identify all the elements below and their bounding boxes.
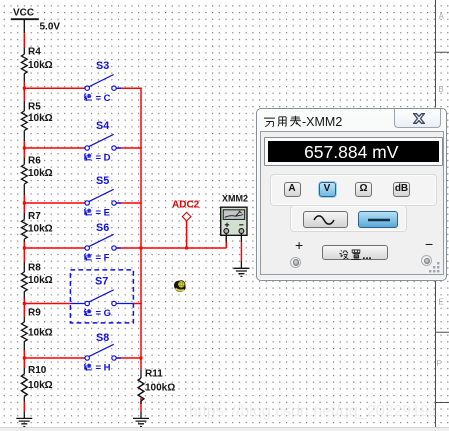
resistor R7: [21, 213, 27, 242]
button dB: [393, 182, 410, 197]
close button: [394, 109, 441, 128]
wire XMM2 - to ground: [240, 242, 242, 261]
svg-text:ADC2: ADC2: [172, 200, 200, 211]
switch S4: [84, 120, 121, 164]
svg-text:10kΩ: 10kΩ: [28, 60, 53, 71]
junction row4 left: [23, 247, 26, 250]
svg-text:R6: R6: [28, 156, 41, 167]
switch S8: [84, 332, 121, 374]
svg-text:10kΩ: 10kΩ: [28, 168, 53, 179]
wire row3 (node E): [24, 202, 142, 204]
wire bus right: [140, 88, 142, 358]
group box modes: [270, 174, 437, 206]
plus label: [295, 237, 303, 253]
junction row6 bus: [140, 357, 143, 360]
terminal +: [290, 257, 301, 268]
svg-text:S6: S6: [96, 222, 109, 234]
resistor R4: [21, 48, 27, 83]
button AC (sine): [303, 211, 348, 228]
ground (XMM2): [233, 261, 249, 276]
junction row2: [23, 147, 26, 150]
junction row1: [23, 87, 26, 90]
ground (left chain): [16, 411, 32, 426]
button V (selected): [319, 182, 336, 197]
resistor R11: [138, 370, 144, 404]
button A: [284, 182, 301, 197]
svg-text:= D: = D: [96, 153, 111, 164]
svg-text:R8: R8: [28, 263, 41, 274]
junction row5: [23, 302, 26, 305]
svg-text:10kΩ: 10kΩ: [28, 275, 53, 286]
minus label: [425, 236, 433, 252]
switch S3: [84, 60, 121, 104]
wire bus to R11: [140, 358, 142, 411]
svg-text:10kΩ: 10kΩ: [28, 224, 53, 235]
svg-text:S3: S3: [96, 60, 109, 72]
resistor R8: [21, 262, 27, 299]
svg-text:S7: S7: [95, 275, 108, 287]
selection box around S7: [70, 270, 133, 323]
svg-text:E: E: [439, 298, 444, 307]
node ADC2: [172, 200, 200, 249]
wire row4 (node F, extends to XMM2): [24, 236, 226, 248]
svg-text:R11: R11: [145, 369, 163, 380]
svg-text:S4: S4: [96, 120, 109, 132]
svg-text:XMM2: XMM2: [222, 194, 248, 204]
switch S5: [84, 175, 121, 219]
junction row6 left: [23, 357, 26, 360]
svg-text:= H: = H: [96, 363, 111, 374]
resistor R6: [21, 158, 27, 195]
wire row2 (node D): [24, 147, 142, 149]
svg-text:R7: R7: [28, 211, 41, 222]
svg-text:= C: = C: [96, 93, 111, 104]
svg-text:= E: = E: [96, 208, 111, 219]
ground (R11): [133, 411, 149, 426]
button DC (line, selected): [358, 211, 398, 228]
sheet border zone line: [436, 0, 449, 427]
svg-text:= G: = G: [96, 308, 112, 319]
terminal -: [421, 255, 432, 266]
wire VCC to R4: [23, 33, 25, 47]
junction row4 bus: [140, 247, 143, 250]
junction row3: [23, 202, 26, 205]
svg-text:5.0V: 5.0V: [40, 22, 61, 33]
multimeter XMM2 icon: [221, 194, 248, 243]
svg-text:R9: R9: [28, 308, 41, 319]
svg-text:F: F: [437, 359, 442, 368]
power VCC: [11, 8, 60, 34]
switch S7: [70, 275, 133, 319]
bottom gray strip: [0, 427, 449, 431]
svg-text:R5: R5: [28, 102, 41, 113]
wire XMM2 + to row4: [225, 242, 227, 248]
resistor R5: [21, 101, 27, 141]
svg-text://blog.csdn.net/qq_20229191: //blog.csdn.net/qq_20229191: [232, 403, 439, 420]
group box AC/DC: [290, 205, 407, 232]
wire row1 (node C): [24, 87, 142, 89]
measurement display: [264, 137, 443, 166]
sheet zone letters: [437, 12, 445, 368]
svg-text:https:: https:: [189, 403, 228, 420]
svg-text:10kΩ: 10kΩ: [28, 328, 53, 339]
svg-text:R10: R10: [28, 365, 47, 376]
svg-text:100kΩ: 100kΩ: [145, 383, 175, 394]
resize grip: [428, 261, 441, 274]
svg-text:S8: S8: [96, 332, 109, 344]
junction row4 ADC: [185, 247, 188, 250]
svg-text:10kΩ: 10kΩ: [28, 113, 53, 124]
switch S6: [84, 222, 121, 264]
probe bubble icon: [174, 281, 186, 292]
wire row6 (node H): [24, 357, 142, 359]
multimeter dialog window: [256, 108, 447, 281]
resistor R10: [21, 368, 27, 402]
svg-text:= F: = F: [96, 253, 110, 264]
svg-text:S5: S5: [96, 175, 109, 187]
svg-text:R4: R4: [28, 47, 41, 58]
wire row5 (node G): [24, 303, 142, 305]
wire R4 to row1: [23, 83, 25, 89]
svg-text:B: B: [439, 85, 444, 94]
svg-text:10kΩ: 10kΩ: [28, 380, 53, 391]
dialog title: [263, 115, 342, 129]
button Ohm: [355, 182, 372, 197]
settings button: [322, 245, 388, 260]
svg-text:VCC: VCC: [13, 8, 34, 19]
resistor R9: [21, 317, 27, 350]
svg-text:A: A: [439, 12, 445, 21]
